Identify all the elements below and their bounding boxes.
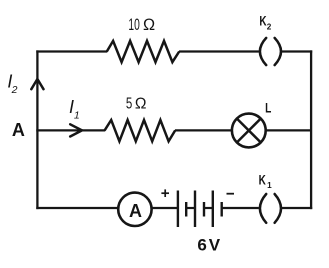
svg-text:10: 10: [128, 16, 139, 34]
label 10 ohm value of R1: [128, 16, 155, 34]
battery plus sign: [161, 189, 169, 197]
label I2: [7, 72, 17, 97]
current arrow I1 (pointing right on middle wire): [70, 124, 82, 136]
wire: top horizontal between R1 and switch K2: [179, 50, 259, 52]
svg-text:1: 1: [267, 181, 272, 190]
cell plate short 2: [203, 202, 205, 217]
switch K2 open contact (right arc): [275, 38, 281, 65]
lamp L (circle with X): [232, 114, 266, 148]
wire: middle horizontal between R2 and lamp: [175, 129, 232, 131]
wire: middle horizontal from lamp to right side: [266, 129, 312, 131]
cell plate long 2: [194, 191, 196, 228]
cell plate short 1: [185, 202, 187, 217]
resistor R2 zigzag: [105, 120, 176, 141]
battery minus sign: [227, 193, 235, 195]
wire: bottom horizontal from battery to switch K1: [222, 207, 259, 209]
switch K2 open contact (left arc): [260, 38, 266, 65]
svg-text:2: 2: [267, 22, 272, 31]
label 5 ohm value of R2: [126, 96, 147, 113]
svg-text:K: K: [259, 173, 266, 188]
wire: bottom-left horizontal up to ammeter: [36, 207, 118, 209]
resistor R1 zigzag: [107, 41, 179, 62]
svg-text:L: L: [265, 100, 272, 116]
label I1: [69, 97, 80, 122]
svg-text:2: 2: [11, 84, 18, 96]
wire: top-left horizontal segment: [36, 50, 107, 52]
label K2: [259, 13, 271, 31]
svg-text:1: 1: [74, 109, 80, 121]
connector wire between cell 1 and cell 2: [186, 207, 195, 209]
current arrow I2 (pointing up on left wire): [31, 79, 43, 89]
label K1: [259, 173, 273, 190]
wire: top-right horizontal after K2: [282, 50, 312, 52]
cell plate long 3: [212, 191, 214, 228]
battery B1 (three cells, 6 V): [178, 191, 222, 228]
wire: middle branch from node A with current arrow: [36, 129, 105, 131]
svg-text:A: A: [129, 201, 142, 221]
svg-text:K: K: [259, 13, 266, 28]
svg-text:V: V: [209, 236, 221, 255]
wire: bottom-right horizontal after K1: [282, 207, 312, 209]
connector wire between cell 2 and cell 3: [204, 207, 213, 209]
switch K1 open contact (left arc): [260, 194, 266, 223]
cell plate long 1: [177, 191, 179, 228]
wire: bottom horizontal from ammeter to battery: [151, 207, 178, 209]
svg-text:6: 6: [197, 236, 206, 255]
switch K1 open contact (right arc): [275, 194, 281, 223]
ammeter A (circle): [118, 193, 151, 226]
svg-text:A: A: [12, 120, 25, 140]
wire: right vertical side: [310, 50, 312, 209]
svg-text:Ω: Ω: [143, 16, 155, 34]
svg-text:5: 5: [126, 96, 132, 113]
svg-text:Ω: Ω: [135, 96, 147, 113]
cell plate short 3: [220, 202, 222, 217]
label 6 V battery value: [197, 236, 220, 255]
wire: left vertical branch (node A up to top-left corner and down to bottom-left corner): [36, 50, 38, 209]
